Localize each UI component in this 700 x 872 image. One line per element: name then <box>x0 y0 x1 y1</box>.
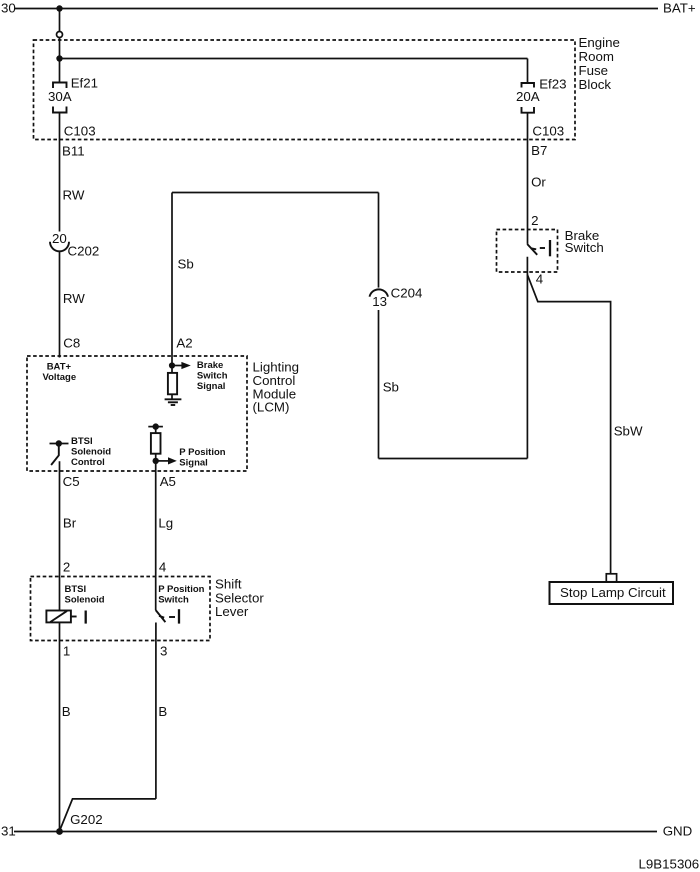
Shift Selector Lever label <box>215 577 264 620</box>
svg-text:1: 1 <box>63 644 70 659</box>
P Position Signal label <box>179 447 225 468</box>
svg-text:BTSI: BTSI <box>71 436 93 447</box>
junction on bus <box>56 5 62 11</box>
svg-text:Control: Control <box>71 457 105 468</box>
connector open circle <box>57 32 63 38</box>
svg-text:C5: C5 <box>63 474 80 489</box>
svg-text:Engine: Engine <box>579 35 620 50</box>
svg-text:P Position: P Position <box>179 447 225 458</box>
wire Sb down to LCM A2 <box>171 193 173 366</box>
fuse Ef21 <box>53 83 67 113</box>
wire BAT+ bus top <box>14 8 658 10</box>
svg-text:Switch: Switch <box>197 371 228 382</box>
wire to fuse Ef21 <box>59 59 61 83</box>
wire A5 to P switch <box>155 461 157 610</box>
svg-text:B7: B7 <box>531 143 547 158</box>
svg-text:Br: Br <box>63 516 77 531</box>
Engine Room Fuse Block label <box>579 35 620 92</box>
svg-text:Block: Block <box>579 77 612 92</box>
Shift Selector Lever box <box>31 577 211 641</box>
svg-text:B11: B11 <box>62 143 85 158</box>
Brake Switch label <box>565 228 604 255</box>
svg-text:Or: Or <box>531 175 546 190</box>
svg-text:3: 3 <box>160 644 167 659</box>
wire bus to connector <box>59 9 61 32</box>
junction G202 <box>56 828 63 835</box>
svg-text:Room: Room <box>579 49 614 64</box>
brake switch blade <box>527 244 537 255</box>
svg-text:Signal: Signal <box>179 458 208 469</box>
svg-text:L9B15306: L9B15306 <box>639 857 700 872</box>
svg-text:Signal: Signal <box>197 381 226 392</box>
svg-text:Fuse: Fuse <box>579 63 609 78</box>
BTSI Solenoid Control label <box>71 436 111 468</box>
svg-text:2: 2 <box>531 213 538 228</box>
svg-text:Switch: Switch <box>158 595 189 606</box>
P position switch blade <box>156 610 166 622</box>
wire BTSI control to C5 <box>59 461 61 610</box>
svg-text:(LCM): (LCM) <box>253 400 290 415</box>
wire to fuse Ef23 <box>527 59 529 84</box>
svg-text:C103: C103 <box>64 123 96 138</box>
svg-text:Voltage: Voltage <box>43 372 77 383</box>
svg-text:13: 13 <box>372 294 387 309</box>
Lighting Control Module box <box>27 356 247 471</box>
svg-text:GND: GND <box>663 824 693 839</box>
svg-text:C202: C202 <box>68 243 100 258</box>
wire C204 branch lower <box>378 310 380 459</box>
junction P position <box>153 458 159 464</box>
wire C204 branch upper <box>378 193 380 288</box>
brake switch signal arrow <box>172 362 191 369</box>
svg-text:BAT+: BAT+ <box>47 361 72 372</box>
svg-text:A5: A5 <box>160 474 176 489</box>
svg-text:30A: 30A <box>48 89 72 104</box>
svg-text:30: 30 <box>1 1 16 16</box>
svg-text:31: 31 <box>1 824 16 839</box>
svg-text:RW: RW <box>63 291 85 306</box>
BTSI Solenoid label <box>65 584 105 606</box>
svg-text:C204: C204 <box>391 286 423 301</box>
svg-text:Switch: Switch <box>565 240 604 255</box>
P position switch fixed contact <box>169 609 179 623</box>
svg-text:Solenoid: Solenoid <box>65 595 105 606</box>
svg-text:2: 2 <box>63 559 70 574</box>
connector C202 pin 20 <box>50 231 69 252</box>
svg-text:Lg: Lg <box>158 516 173 531</box>
wire GND bus bottom <box>14 831 657 833</box>
svg-text:4: 4 <box>536 271 543 286</box>
BTSI solenoid contact <box>71 611 86 624</box>
resistor in LCM (P position) <box>151 427 161 461</box>
svg-text:Lever: Lever <box>215 604 249 619</box>
wire join to ground run <box>60 799 156 831</box>
svg-text:RW: RW <box>63 188 85 203</box>
wire solenoid to G202 <box>59 622 61 831</box>
svg-text:Sb: Sb <box>383 380 399 395</box>
BTSI solenoid control switch <box>50 440 69 465</box>
svg-text:4: 4 <box>159 559 166 574</box>
fuse Ef23 <box>522 83 535 113</box>
svg-text:Ef21: Ef21 <box>71 76 98 91</box>
resistor in LCM (brake) <box>168 366 177 400</box>
wire Sb bottom horizontal <box>379 458 528 460</box>
wire circle into fuse block <box>59 38 61 59</box>
wire C202 to LCM C8 <box>59 252 61 358</box>
wire diagonal to stop lamp feed <box>527 275 610 574</box>
junction A2 <box>169 362 175 368</box>
wire Ef23 to brake switch <box>527 113 529 244</box>
brake switch fixed contact <box>540 240 550 256</box>
wire Sb horizontal top <box>172 192 379 194</box>
svg-text:BTSI: BTSI <box>65 584 87 595</box>
wire P switch down <box>155 623 157 799</box>
svg-text:BAT+: BAT+ <box>663 1 696 16</box>
svg-text:B: B <box>158 704 167 719</box>
svg-text:A2: A2 <box>176 336 192 351</box>
P Position Switch label <box>158 584 204 606</box>
svg-text:Brake: Brake <box>197 360 223 371</box>
svg-text:SbW: SbW <box>614 424 643 439</box>
svg-text:C103: C103 <box>532 124 564 139</box>
connector C204 pin 13 <box>370 289 389 309</box>
svg-text:20: 20 <box>52 231 67 246</box>
BAT+ Voltage label <box>43 361 77 383</box>
ground internal <box>165 399 182 405</box>
svg-text:Shift: Shift <box>215 577 242 592</box>
svg-text:Sb: Sb <box>178 257 194 272</box>
svg-text:Selector: Selector <box>215 590 264 605</box>
P position signal arrow <box>156 457 177 464</box>
svg-text:Ef23: Ef23 <box>539 77 566 92</box>
wire Ef21 to C202 <box>59 113 61 232</box>
LCM label <box>253 360 300 415</box>
Brake Switch Signal label <box>197 360 228 392</box>
BTSI solenoid <box>46 611 71 623</box>
svg-text:B: B <box>62 704 71 719</box>
stop lamp connector square <box>606 574 616 582</box>
P position pull-up terminal <box>148 423 163 429</box>
svg-text:20A: 20A <box>516 89 540 104</box>
Brake Switch box <box>497 230 558 273</box>
Stop Lamp Circuit box <box>550 582 674 604</box>
svg-text:P Position: P Position <box>158 584 204 595</box>
wire up to brake switch pin 4 <box>526 257 528 459</box>
junction inside fuse block <box>56 55 62 61</box>
Engine Room Fuse Block box <box>34 40 576 140</box>
wire across fuse block <box>60 58 528 60</box>
svg-text:Solenoid: Solenoid <box>71 447 111 458</box>
svg-text:C8: C8 <box>63 336 80 351</box>
svg-text:Stop Lamp Circuit: Stop Lamp Circuit <box>560 585 666 600</box>
svg-text:G202: G202 <box>70 812 103 827</box>
